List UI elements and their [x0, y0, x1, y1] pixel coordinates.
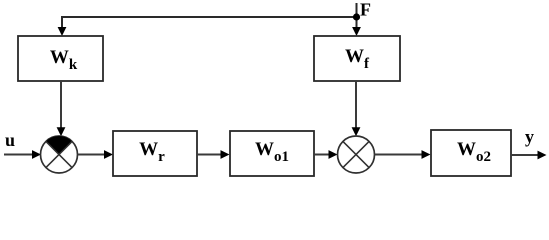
wire: input u arrow into S1: [4, 150, 41, 159]
svg-text:y: y: [525, 127, 534, 147]
wire: Wf output down to summing junction S2: [352, 81, 361, 136]
block Wk: [18, 36, 103, 81]
wire: feedback line from node F left and down to Wk input: [58, 17, 357, 36]
wire: Wo1 to S2: [314, 150, 338, 159]
wire: S1 to Wr: [78, 150, 114, 159]
block Wo1: [230, 131, 314, 176]
block Wf: [314, 36, 400, 81]
svg-text:F: F: [360, 0, 371, 20]
svg-text:u: u: [5, 130, 15, 150]
block Wo2: [431, 130, 511, 176]
wire: Wr to Wo1: [197, 150, 230, 159]
wire: S2 to Wo2: [375, 150, 431, 159]
wire: F input vertical into Wf: [352, 3, 361, 36]
wire: Wo2 output y: [511, 151, 547, 160]
summing junction S2: [338, 136, 375, 173]
summing junction S1 (with filled top sector): [41, 136, 78, 173]
node: junction dot at F: [353, 13, 360, 20]
wire: Wk output down to summing junction S1: [57, 81, 66, 136]
block Wr: [113, 131, 197, 176]
